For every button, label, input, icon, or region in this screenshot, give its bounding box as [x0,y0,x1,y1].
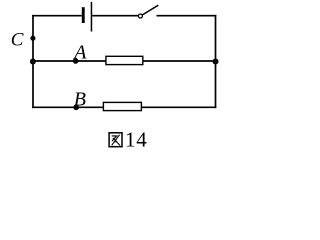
wire: left vertical rail [32,15,34,108]
wire: switch to top-right corner [157,15,217,17]
node: right junction of middle branch [213,59,219,65]
battery cell B1: long thin positive plate [91,2,93,32]
wire: middle branch horizontal [33,60,216,62]
svg-text:C: C [11,29,24,50]
resistor R2 (branch B) [103,102,141,110]
wire: right vertical rail [215,15,217,108]
resistor R1 (branch A) [106,56,143,64]
wire: bottom branch horizontal [32,106,216,108]
svg-text:A: A [72,42,87,64]
switch S1: pivot circle [138,14,142,18]
wire: battery to switch [92,15,138,17]
svg-text:B: B [74,89,86,111]
wire: top-left segment to battery [32,15,82,17]
node B dot [73,105,79,111]
battery cell B1: short thick negative plate [82,7,85,23]
caption character 图 (drawn) [109,133,122,147]
svg-text:14: 14 [125,127,148,151]
node A dot [73,58,79,64]
switch S1: open lever arm [142,5,158,15]
node C terminal dot [30,36,35,41]
node: left junction of middle branch [30,59,36,65]
